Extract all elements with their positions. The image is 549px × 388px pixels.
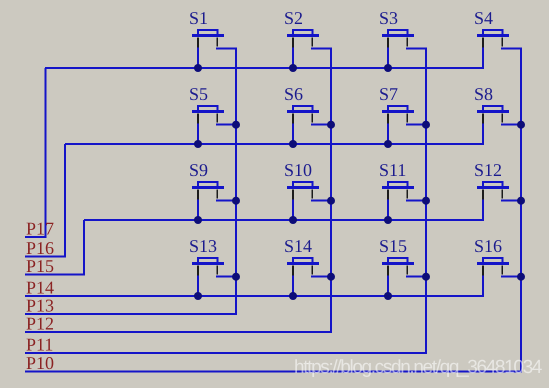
svg-text:S9: S9 [189,160,208,180]
svg-text:S3: S3 [379,8,398,28]
junction S9 right pin on column wire [232,197,240,205]
push-button S1 [189,8,237,68]
push-button S10 [284,160,332,220]
push-button S14 [284,236,332,296]
push-button S4 [474,8,522,68]
wire P17 riser to row 1 [45,68,47,237]
push-button S6 [284,84,332,144]
junction S16 right pin on column wire [517,273,525,281]
svg-text:S4: S4 [474,8,493,28]
junction S11 right pin on column wire [422,197,430,205]
push-button S9 [189,160,237,220]
svg-text:S15: S15 [379,236,407,256]
junction S13 left pin on row wire [194,292,202,300]
svg-text:S7: S7 [379,84,398,104]
push-button S3 [379,8,427,68]
svg-text:P16: P16 [26,238,54,258]
svg-text:S10: S10 [284,160,312,180]
wire P12 horizontal [25,331,332,333]
wire P15 horizontal [25,274,85,276]
svg-text:P14: P14 [26,277,54,297]
wire P10 horizontal [25,371,522,373]
push-button S5 [189,84,237,144]
wire row 1 (net P17) horizontal [45,67,484,69]
junction S14 left pin on row wire [289,292,297,300]
svg-text:S6: S6 [284,84,303,104]
wire P16 riser to row 2 [64,144,66,257]
junction S14 right pin on column wire [327,273,335,281]
junction S2 left pin on row wire [289,64,297,72]
junction S7 right pin on column wire [422,121,430,129]
wire row 3 (net P15) horizontal [84,219,484,221]
svg-text:S2: S2 [284,8,303,28]
wire P11 horizontal [25,352,427,354]
wire P15 riser to row 3 [83,220,85,275]
junction S12 right pin on column wire [517,197,525,205]
svg-text:S1: S1 [189,8,208,28]
junction S10 left pin on row wire [289,216,297,224]
junction S5 right pin on column wire [232,121,240,129]
junction S15 left pin on row wire [384,292,392,300]
push-button S11 [379,160,427,220]
wire P13 horizontal [25,313,237,315]
wire P16 horizontal [25,256,66,258]
push-button S8 [474,84,522,144]
svg-text:S16: S16 [474,236,502,256]
junction S8 right pin on column wire [517,121,525,129]
push-button S13 [189,236,237,296]
svg-text:S8: S8 [474,84,493,104]
svg-text:S11: S11 [379,160,406,180]
push-button S7 [379,84,427,144]
svg-text:S12: S12 [474,160,502,180]
junction S11 left pin on row wire [384,216,392,224]
svg-text:P10: P10 [26,353,54,373]
wire column 2 vertical [330,49,332,332]
wire row 2 (net P16) horizontal [65,143,484,145]
svg-text:P15: P15 [26,256,54,276]
wire column 1 vertical [235,49,237,315]
junction S9 left pin on row wire [194,216,202,224]
svg-text:P12: P12 [26,313,54,333]
wire P17 horizontal [25,236,47,238]
svg-text:P17: P17 [26,219,54,239]
wire column 3 vertical [425,49,427,353]
junction S1 left pin on row wire [194,64,202,72]
junction S10 right pin on column wire [327,197,335,205]
push-button S2 [284,8,332,68]
push-button S12 [474,160,522,220]
svg-text:https://blog.csdn.net/qq_36481: https://blog.csdn.net/qq_36481034 [294,357,543,378]
junction S13 right pin on column wire [232,273,240,281]
svg-text:P11: P11 [26,334,53,354]
junction S6 right pin on column wire [327,121,335,129]
junction S5 left pin on row wire [194,140,202,148]
svg-text:S5: S5 [189,84,208,104]
wire row 4 (net P14) horizontal [25,295,484,297]
push-button S16 [474,236,522,296]
junction S15 right pin on column wire [422,273,430,281]
junction S3 left pin on row wire [384,64,392,72]
wire column 4 vertical [520,49,522,372]
push-button S15 [379,236,427,296]
junction S7 left pin on row wire [384,140,392,148]
svg-text:S14: S14 [284,236,312,256]
svg-text:S13: S13 [189,236,217,256]
junction S6 left pin on row wire [289,140,297,148]
